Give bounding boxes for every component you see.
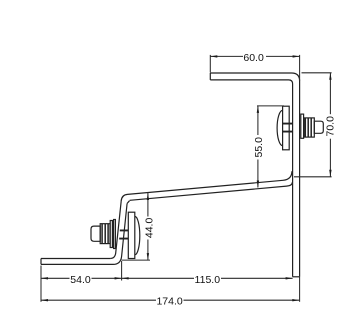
lower dome (right of lower web) <box>135 216 140 254</box>
dim text 70.0 (rotated) <box>325 114 335 139</box>
left extension line (x=41) <box>40 266 42 302</box>
upper flange washer <box>301 114 304 138</box>
arrow 44 bottom <box>147 253 149 260</box>
arrow 44 top <box>147 193 149 200</box>
top arm left end cap <box>209 73 211 80</box>
svg-text:54.0: 54.0 <box>70 274 91 286</box>
lower bolt head <box>91 226 100 241</box>
dim 60 right extension handled by web outer line extended up <box>299 55 301 81</box>
arrow 70 bottom <box>329 170 331 177</box>
arrow 115 left <box>122 277 129 279</box>
arrow 60 right <box>293 55 300 57</box>
svg-text:55.0: 55.0 <box>253 137 265 158</box>
leg bottom cap <box>293 276 300 278</box>
dim 44 dimension line <box>147 193 149 260</box>
arrow 55 top <box>257 106 259 113</box>
dim 44 bottom extension line <box>122 259 150 261</box>
lower bolt shaft lines through plate gap <box>119 230 128 238</box>
lower serrated nut <box>100 224 110 244</box>
upper nut serration lines <box>305 118 311 137</box>
dim text 174.0 <box>156 295 184 305</box>
dim 70 top extension line <box>302 72 332 74</box>
dim 54/115 dimension line <box>41 277 293 279</box>
arrow 174 left <box>41 299 48 301</box>
upper serrated nut <box>304 118 314 137</box>
dim text 115.0 <box>194 274 221 284</box>
bottom arm bottom surface <box>41 263 113 265</box>
dim 55 dimension line <box>257 106 259 188</box>
dim 60 left extension line <box>209 55 211 73</box>
arrow 70 top <box>329 73 331 80</box>
bottom arm top surface <box>41 258 110 260</box>
arrow 60 left <box>210 55 217 57</box>
dim text 44.0 (rotated) <box>143 217 153 240</box>
middle strut top surface (part A, slanted) <box>128 171 292 194</box>
arrow 174 right <box>292 299 299 301</box>
dim text 60.0 <box>243 52 266 62</box>
lower washer strip <box>114 220 116 249</box>
lower flange washer <box>110 221 112 248</box>
arrow 54 left <box>41 277 48 279</box>
arrow 115 right <box>286 277 293 279</box>
upper clamp plate <box>283 106 290 150</box>
dim 55 top extension line <box>257 105 284 107</box>
bottom arm left end cap <box>40 259 42 265</box>
lower web right line (tilted) <box>113 200 130 264</box>
dim 70 dimension line <box>329 73 331 177</box>
right extension line (x=299.3 continues web outer) <box>299 277 301 302</box>
svg-text:70.0: 70.0 <box>325 116 337 137</box>
dim text 55.0 (rotated) <box>253 135 263 160</box>
lower clamp plate <box>128 212 135 258</box>
svg-text:115.0: 115.0 <box>195 274 221 286</box>
lower nut serration lines <box>102 224 108 244</box>
dim text 54.0 <box>70 274 92 284</box>
upper dome (bolt head dome, left of upper web) <box>277 110 283 145</box>
arrow 55 bottom <box>257 181 259 188</box>
dim 174 dimension line <box>41 299 299 301</box>
dim 70 bottom extension line <box>294 176 332 178</box>
upper bolt end <box>314 121 323 133</box>
dim 60 dimension line <box>210 55 299 57</box>
top arm outer (part B L-bracket top surface) <box>210 73 299 277</box>
middle extension line (x=121.6) <box>121 261 123 281</box>
svg-text:44.0: 44.0 <box>144 218 156 239</box>
svg-text:174.0: 174.0 <box>156 295 182 307</box>
arrow 54 right <box>115 277 122 279</box>
svg-text:60.0: 60.0 <box>243 52 264 64</box>
upper bolt shaft lines through plate gap <box>283 124 293 132</box>
middle strut bottom surface (slanted) <box>130 182 292 200</box>
lower web left line (tilted) <box>110 194 127 258</box>
top arm inner (part B bottom surface + leg inner edge) <box>210 80 292 277</box>
